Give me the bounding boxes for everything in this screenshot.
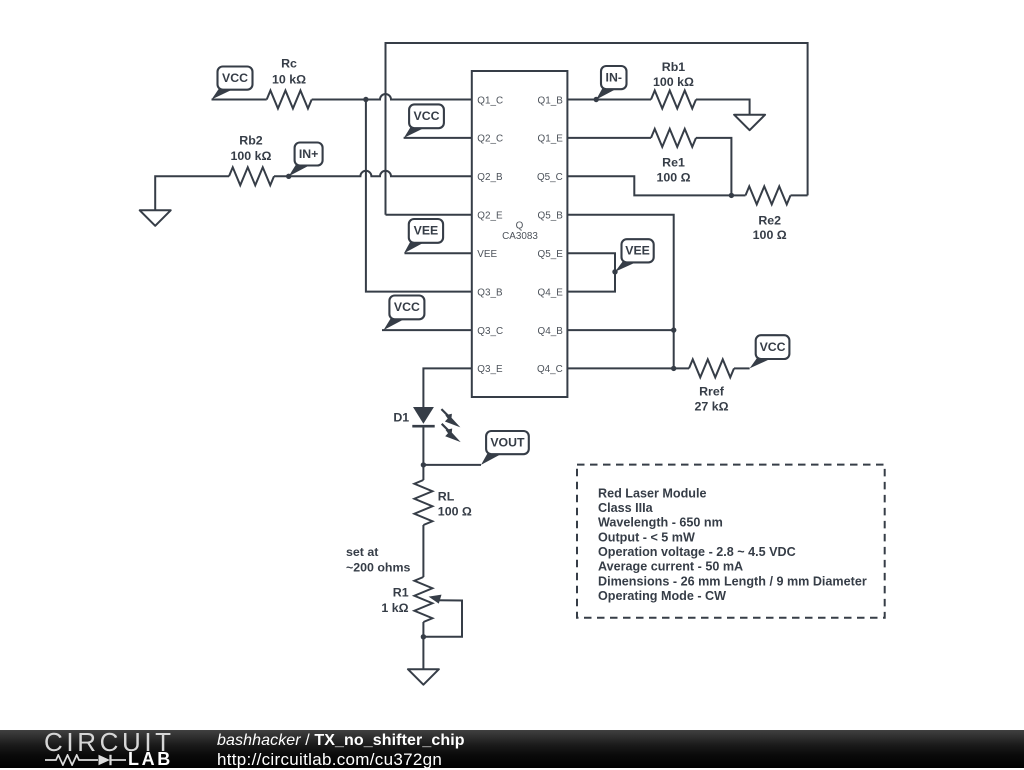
label Rc — [272, 56, 306, 86]
net flag VOUT — [481, 431, 529, 465]
svg-text:Q1_B: Q1_B — [538, 95, 564, 106]
net flag VCC1 — [212, 67, 253, 100]
wire Q4_B — [567, 329, 673, 331]
logo CIRCUIT — [44, 727, 175, 758]
svg-text:R1: R1 — [393, 586, 409, 600]
wire diode to VOUT node — [422, 428, 424, 465]
wire RL to R1 — [422, 525, 424, 577]
wire node B to Re2 — [731, 194, 745, 196]
wire Q5_C to node B — [567, 176, 731, 195]
wire Rb2 to Q2_B with hops — [274, 171, 472, 177]
svg-text:1 kΩ: 1 kΩ — [381, 601, 408, 615]
designator U1 — [502, 221, 538, 243]
svg-text:Q2_C: Q2_C — [477, 134, 503, 145]
svg-text:Q1_C: Q1_C — [477, 95, 503, 106]
footer bar — [0, 730, 1024, 769]
net flag IN- — [596, 66, 626, 100]
net flag VEE1 — [404, 219, 443, 253]
note box Red Laser Module — [577, 465, 885, 618]
junction node IN- — [594, 97, 599, 102]
label D1 — [393, 411, 409, 425]
svg-text:Q1_E: Q1_E — [538, 134, 564, 145]
wire VCC3 to Q3_C — [382, 329, 472, 331]
svg-text:Q5_C: Q5_C — [537, 172, 563, 183]
label Rref — [694, 385, 728, 414]
svg-text:27 kΩ: 27 kΩ — [694, 400, 728, 414]
resistor Rb1 — [651, 91, 696, 109]
svg-text:100 kΩ: 100 kΩ — [653, 75, 694, 89]
svg-text:Q4_B: Q4_B — [538, 326, 564, 337]
wire Q1_E to Re1 — [567, 137, 651, 139]
svg-text:~200 ohms: ~200 ohms — [346, 561, 411, 575]
svg-text:10 kΩ: 10 kΩ — [272, 72, 306, 86]
svg-text:Average current - 50 mA: Average current - 50 mA — [598, 560, 743, 574]
ground G2 — [408, 669, 439, 685]
wire pot to G2 — [422, 622, 424, 669]
label R1 — [381, 586, 408, 616]
svg-text:Q5_E: Q5_E — [538, 249, 564, 260]
svg-text:100 Ω: 100 Ω — [438, 505, 472, 519]
svg-text:Q3_C: Q3_C — [477, 326, 503, 337]
label Rb2 — [231, 134, 272, 163]
svg-text:Operation voltage - 2.8 ~ 4.5: Operation voltage - 2.8 ~ 4.5 VDC — [598, 545, 796, 559]
wire Q5_E to Q4_E — [567, 253, 615, 291]
logo schematic glyph — [45, 754, 127, 766]
svg-text:Red Laser Module: Red Laser Module — [598, 486, 706, 500]
title text — [217, 732, 465, 750]
wire node A to Q1_C with hop — [366, 94, 472, 99]
url text — [217, 750, 442, 770]
junction node A — [363, 97, 368, 102]
wire Q3_E to diode — [423, 368, 471, 407]
label Rb1 — [653, 60, 694, 89]
net flag VCC4 — [750, 335, 790, 368]
wire Q4_C to Rref — [567, 367, 689, 369]
svg-text:IN+: IN+ — [299, 147, 318, 161]
svg-text:Q: Q — [516, 221, 524, 232]
svg-text:Q3_B: Q3_B — [477, 287, 503, 298]
wire Rb1 to G3 — [696, 100, 750, 115]
wire VCC2 to Q2_C — [404, 137, 472, 139]
svg-text:Rref: Rref — [699, 385, 725, 399]
potentiometer R1 — [414, 577, 432, 622]
junction node VEE2 — [612, 269, 617, 274]
svg-text:Output - < 5 mW: Output - < 5 mW — [598, 530, 695, 544]
svg-text:VCC: VCC — [414, 109, 440, 123]
svg-text:VEE: VEE — [477, 249, 497, 260]
wire VOUT stub — [423, 464, 481, 466]
ground G1 — [140, 210, 171, 226]
wiper arrow R1 — [423, 595, 462, 637]
light arrows D1 — [441, 409, 460, 442]
pin labels U1 — [477, 95, 563, 375]
junction node C — [671, 327, 676, 332]
svg-text:VEE: VEE — [625, 244, 650, 258]
net flag VEE2 — [615, 239, 654, 272]
wire VEE1 to VEE pin — [405, 252, 472, 254]
svg-text:VOUT: VOUT — [490, 435, 525, 449]
svg-text:Operating Mode - CW: Operating Mode - CW — [598, 589, 726, 603]
wire Re2 to right bus — [791, 194, 808, 196]
svg-text:D1: D1 — [393, 411, 409, 425]
net flag VCC2 — [404, 104, 444, 137]
net flag IN+ — [289, 143, 323, 177]
svg-text:Q2_E: Q2_E — [477, 211, 503, 222]
svg-text:Class IIIa: Class IIIa — [598, 501, 654, 515]
label Re2 — [753, 213, 787, 242]
svg-text:Q4_C: Q4_C — [537, 364, 563, 375]
resistor Rref — [689, 359, 734, 377]
junction node B — [729, 193, 734, 198]
wire node to RL — [422, 465, 424, 480]
resistor RL — [414, 480, 432, 525]
svg-text:Rc: Rc — [281, 56, 297, 70]
resistor Rc — [267, 91, 312, 109]
svg-text:100 Ω: 100 Ω — [753, 228, 787, 242]
svg-text:Rb2: Rb2 — [239, 134, 263, 148]
svg-text:RL: RL — [438, 490, 455, 504]
resistor Re1 — [651, 129, 696, 147]
svg-text:IN-: IN- — [606, 70, 622, 84]
svg-text:VCC: VCC — [222, 71, 248, 85]
junction node pot — [421, 634, 426, 639]
svg-text:Q4_E: Q4_E — [538, 287, 564, 298]
ground G3 — [734, 115, 765, 131]
svg-text:100 Ω: 100 Ω — [656, 171, 690, 185]
wire Q1_B to Rb1 — [567, 99, 651, 101]
wire Rc to node A — [312, 99, 366, 101]
diode D1 — [412, 407, 434, 426]
wire VCC to Rc — [212, 99, 267, 101]
label RL — [438, 490, 472, 519]
svg-text:set at: set at — [346, 545, 378, 559]
svg-text:Wavelength - 650 nm: Wavelength - 650 nm — [598, 516, 723, 530]
svg-text:VCC: VCC — [760, 340, 786, 354]
svg-text:100 kΩ: 100 kΩ — [231, 149, 272, 163]
junction node D — [671, 366, 676, 371]
wire Q5_B vertical — [567, 215, 673, 369]
resistor Rb2 — [229, 167, 274, 185]
svg-text:VCC: VCC — [394, 300, 420, 314]
label Re1 — [656, 156, 690, 185]
svg-text:Q5_B: Q5_B — [538, 211, 564, 222]
wire vertical A to Q3_B — [366, 100, 472, 292]
svg-text:VEE: VEE — [414, 224, 439, 238]
junction node VOUT — [421, 462, 426, 467]
svg-text:Rb1: Rb1 — [662, 60, 686, 74]
wire G1 up to Rb2 — [155, 176, 229, 210]
logo LAB — [128, 749, 173, 770]
resistor Re2 — [746, 186, 791, 204]
net flag VCC3 — [384, 296, 425, 331]
svg-text:Q3_E: Q3_E — [477, 364, 503, 375]
wire top bus — [386, 43, 808, 215]
wire Rref to VCC4 — [734, 367, 750, 369]
junction node IN+ — [286, 174, 291, 179]
wire B to Q2_E — [386, 214, 472, 216]
op-amp array U1 CA3083 box — [472, 71, 568, 397]
svg-text:Dimensions - 26 mm Length / 9: Dimensions - 26 mm Length / 9 mm Diamete… — [598, 574, 867, 588]
svg-text:Q2_B: Q2_B — [477, 172, 503, 183]
wire Re1 to node B — [696, 138, 731, 196]
label set-at — [346, 545, 411, 575]
svg-text:Re2: Re2 — [758, 213, 781, 227]
svg-text:CA3083: CA3083 — [502, 231, 538, 242]
svg-text:Re1: Re1 — [662, 156, 685, 170]
